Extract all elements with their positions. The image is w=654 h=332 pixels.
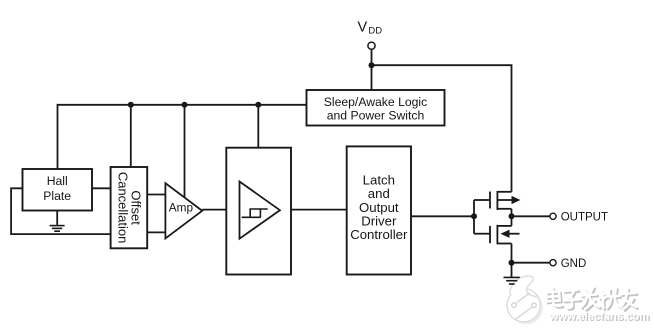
junction dot GND node [509,260,515,266]
wire to OUTPUT terminal [512,215,551,217]
op-amp Amp [165,183,202,238]
svg-text:Cancellation: Cancellation [115,172,130,244]
wire offset to amp bottom [147,231,165,233]
svg-text:Plate: Plate [43,189,71,203]
junction dot gate node [471,213,477,219]
wire latch to gate node [411,215,474,217]
svg-text:Hall: Hall [47,174,68,188]
watermark logo [507,276,543,324]
wire amp to comparator [202,209,226,211]
junction dot bus-comparator [255,102,261,108]
wire to GND terminal [512,262,551,264]
OUTPUT terminal [550,212,608,224]
wire feedback loop [11,188,111,234]
junction dot VDD node [369,62,375,68]
junction dot bus-amp [182,102,188,108]
svg-text:DD: DD [368,26,382,37]
wire VDD vertical [371,49,373,90]
wire low-side source to ground [511,244,513,278]
comparator box [226,148,291,275]
wire hall to offset [92,187,111,189]
wire gate split [474,200,490,234]
wire VDD to output transistor drain [372,65,512,192]
offset cancellation box [111,167,148,248]
GND terminal [550,258,586,270]
wire output node vertical [511,209,513,226]
wire comparator to latch [291,209,347,211]
wire offset to amp top [147,194,165,196]
sleep/awake logic box U1 [307,90,445,126]
svg-text:GND: GND [561,258,587,270]
wire amp supply [184,105,186,198]
svg-text:and Power Switch: and Power Switch [327,108,425,122]
svg-text:www.elecfans.com: www.elecfans.com [549,311,650,323]
junction dot bus-offset [128,102,134,108]
wire comparator supply [257,105,259,148]
svg-text:Sleep/Awake Logic: Sleep/Awake Logic [324,95,427,109]
latch and output driver controller box [347,146,411,274]
svg-text:Amp: Amp [169,201,194,215]
ground hall plate [50,211,65,232]
hall plate box [23,169,93,211]
svg-text:V: V [358,20,368,36]
ground output [504,277,520,284]
watermark url text [549,311,651,324]
junction dot output node [509,213,515,219]
svg-text:OUTPUT: OUTPUT [561,212,608,224]
transistor Q2 low-side [490,225,520,244]
comparator schmitt trigger symbol [240,182,280,239]
transistor Q1 high-side [490,191,521,210]
VDD terminal [358,20,383,50]
svg-text:Controller: Controller [350,227,408,242]
wire supply bus [58,105,307,169]
wire offset cancellation supply [130,105,132,167]
